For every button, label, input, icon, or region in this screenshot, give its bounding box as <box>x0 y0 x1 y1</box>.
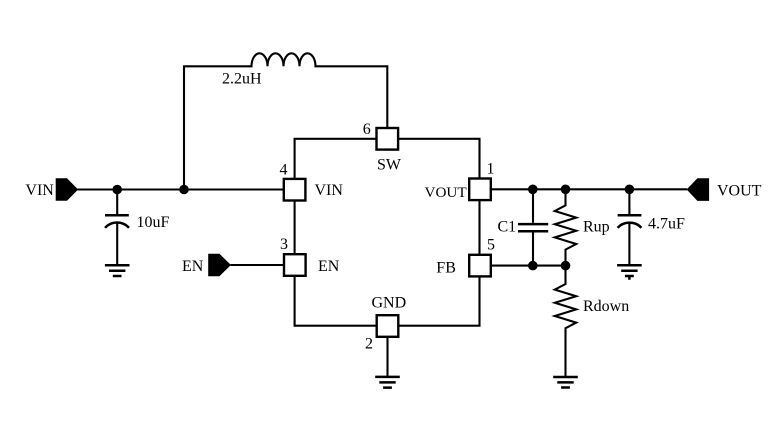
svg-text:C1: C1 <box>498 219 517 236</box>
svg-text:3: 3 <box>280 236 288 253</box>
svg-text:FB: FB <box>436 259 456 276</box>
svg-text:2.2uH: 2.2uH <box>222 71 262 88</box>
svg-text:VIN: VIN <box>25 182 54 199</box>
svg-text:6: 6 <box>363 121 371 138</box>
svg-text:1: 1 <box>487 161 495 178</box>
svg-text:Rdown: Rdown <box>583 298 629 315</box>
svg-text:VOUT: VOUT <box>425 184 468 201</box>
svg-text:EN: EN <box>182 258 204 275</box>
svg-text:VIN: VIN <box>315 182 344 199</box>
svg-text:5: 5 <box>487 237 495 254</box>
svg-text:Rup: Rup <box>583 219 610 236</box>
svg-text:EN: EN <box>318 258 340 275</box>
svg-text:4: 4 <box>280 162 288 179</box>
svg-text:4.7uF: 4.7uF <box>648 216 685 233</box>
svg-text:2: 2 <box>365 336 373 353</box>
svg-text:10uF: 10uF <box>137 214 170 231</box>
svg-text:SW: SW <box>377 157 402 174</box>
svg-text:VOUT: VOUT <box>717 182 762 199</box>
svg-text:GND: GND <box>372 294 407 311</box>
